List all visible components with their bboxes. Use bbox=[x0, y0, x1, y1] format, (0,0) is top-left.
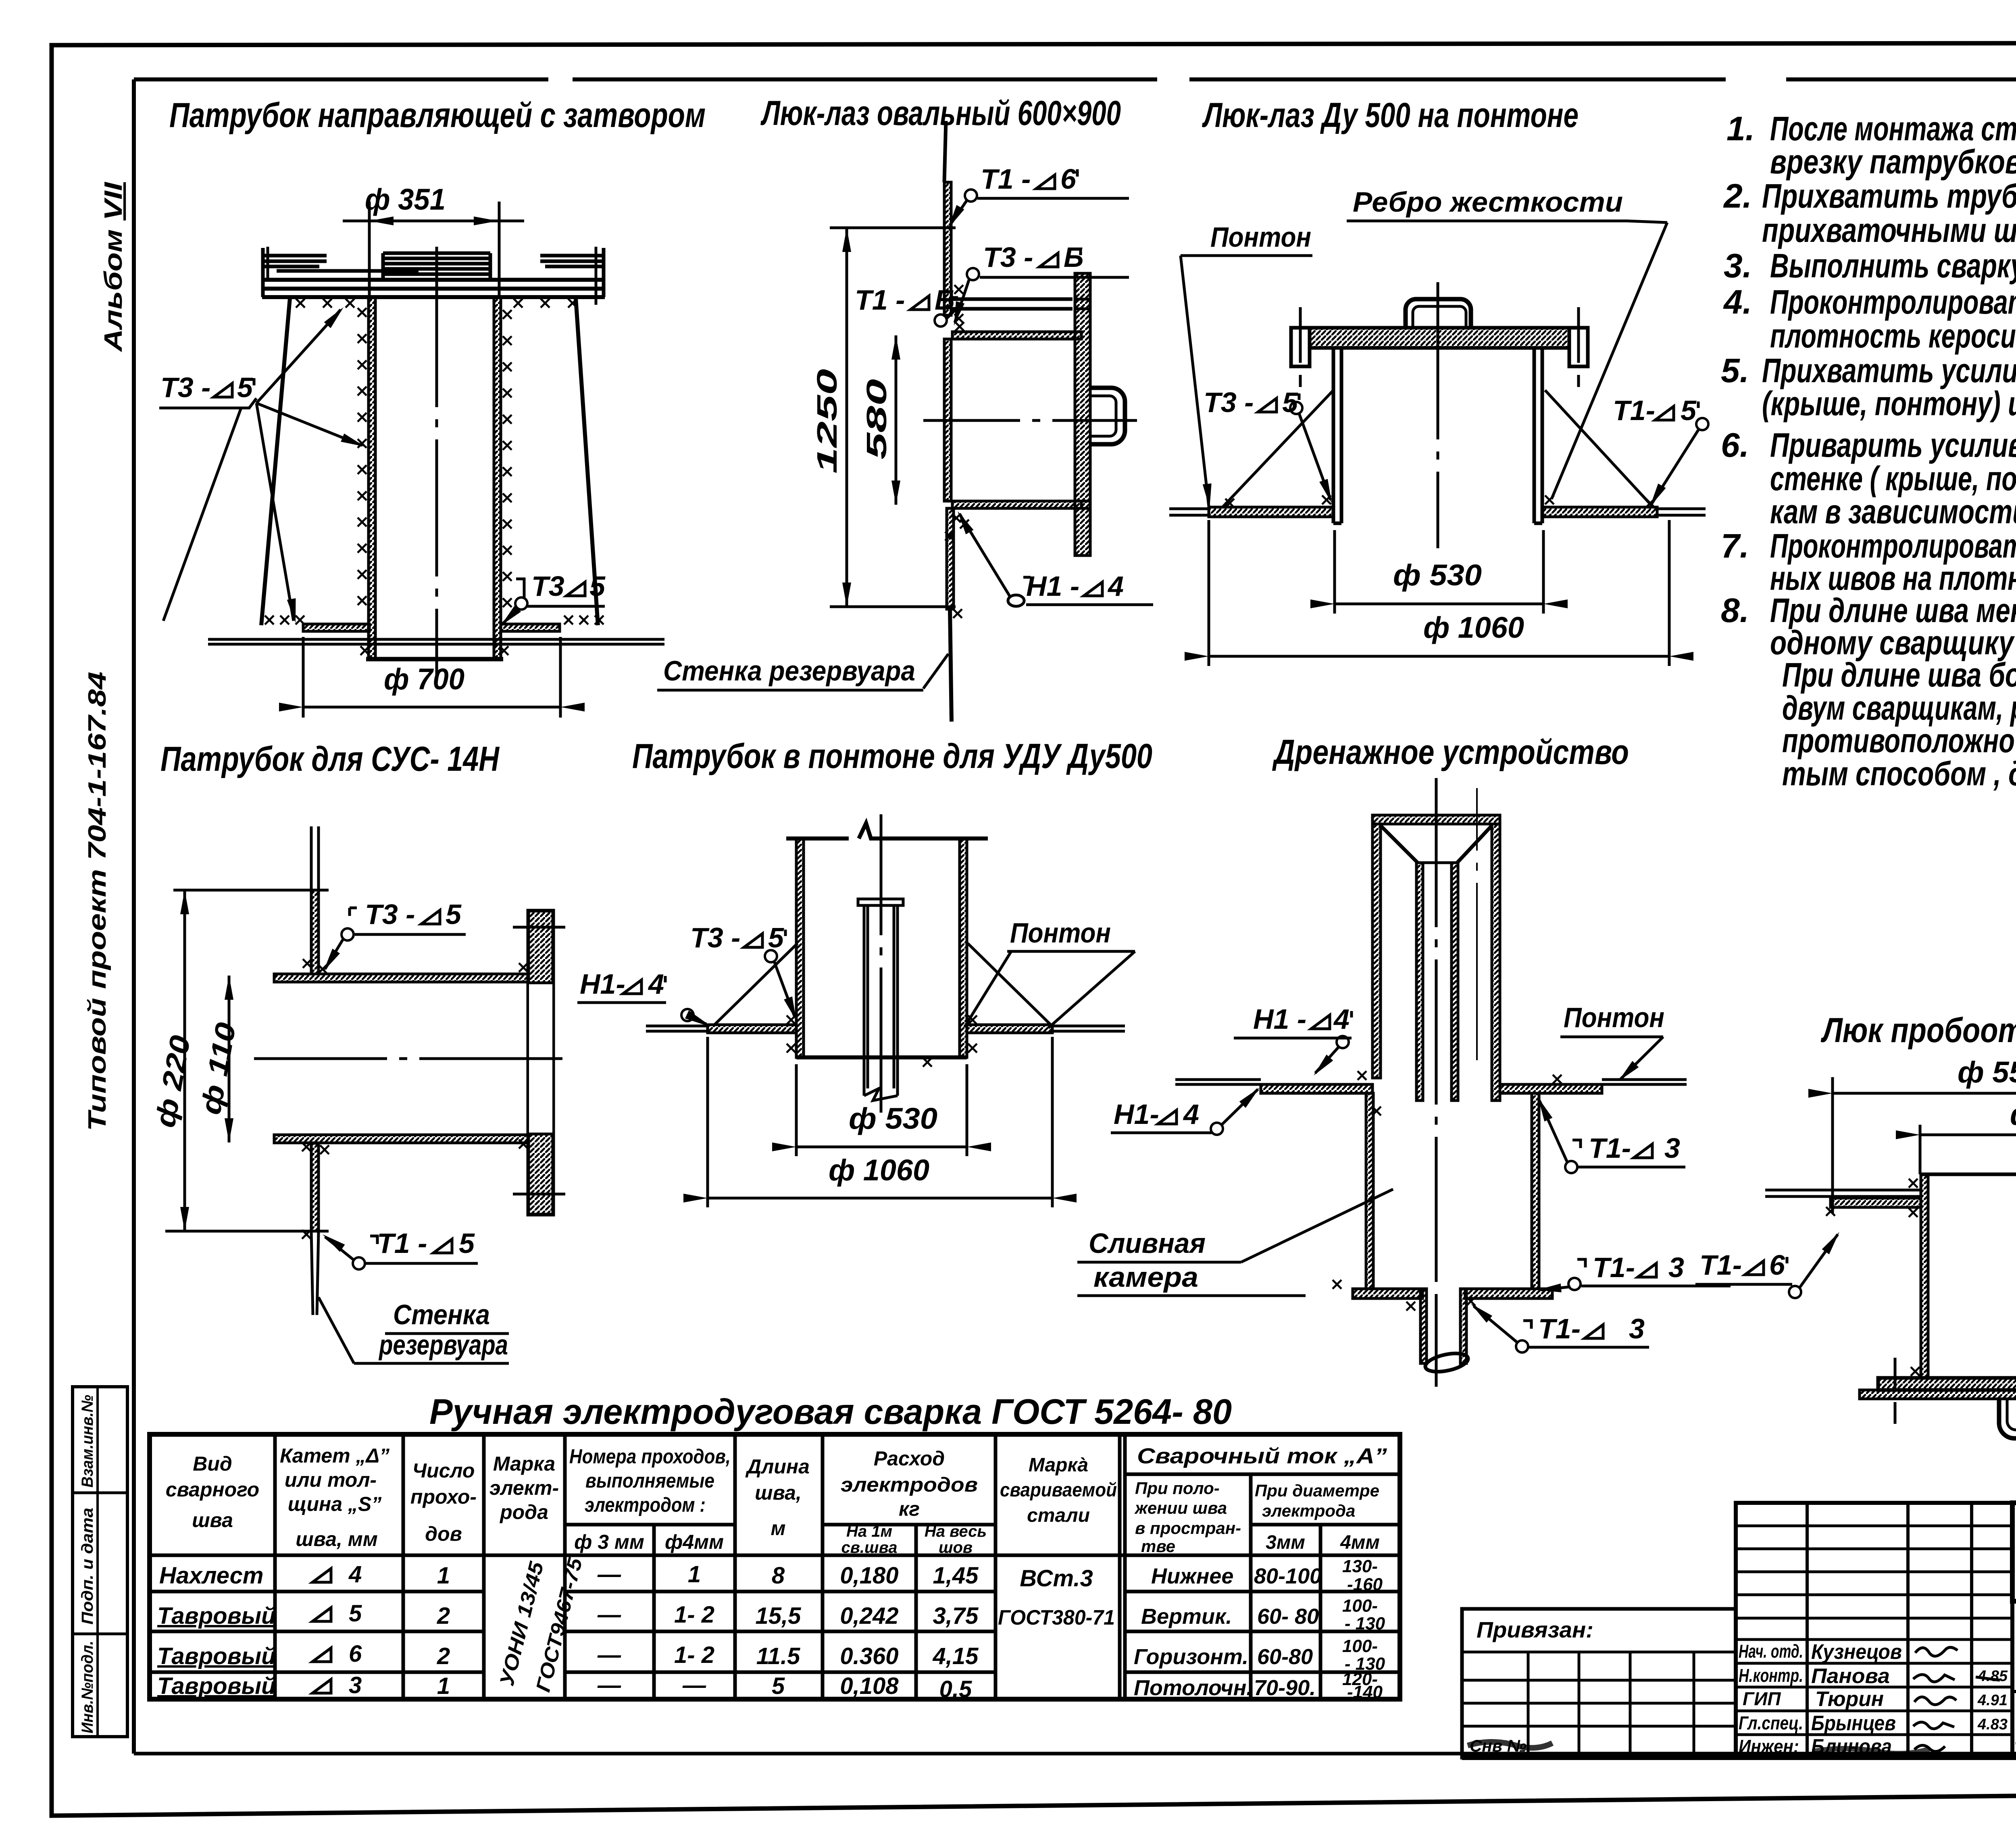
svg-text:Т3 -: Т3 - bbox=[160, 372, 210, 403]
svg-text:Т1-: Т1- bbox=[1589, 1132, 1631, 1164]
svg-text:ВСт.3: ВСт.3 bbox=[1020, 1565, 1093, 1592]
svg-text:7.: 7. bbox=[1721, 527, 1749, 565]
inner pipe bottom break bbox=[864, 1088, 898, 1101]
inner pipe walls bbox=[864, 905, 898, 1096]
svg-text:ф 550: ф 550 bbox=[1958, 1055, 2016, 1089]
svg-text:ф 351: ф 351 bbox=[365, 183, 446, 216]
dim f273 line bbox=[1920, 1134, 2016, 1136]
pontoon plate left (hatched) bbox=[1209, 507, 1334, 517]
table outer frame bbox=[150, 1434, 1400, 1699]
svg-text:или тол-: или тол- bbox=[285, 1469, 377, 1491]
svg-text:1: 1 bbox=[437, 1563, 450, 1589]
svg-text:электродом :: электродом : bbox=[585, 1494, 706, 1516]
vertical centerline bbox=[1437, 282, 1439, 548]
leader lines from T3-5 label bbox=[256, 310, 341, 403]
svg-text:Т1 -: Т1 - bbox=[377, 1228, 427, 1259]
svg-text:4: 4 bbox=[648, 968, 664, 1000]
gate right stack bbox=[540, 256, 604, 266]
svg-text:3: 3 bbox=[1668, 1252, 1684, 1283]
svg-text:Понтон: Понтон bbox=[1010, 917, 1111, 949]
svg-text:ф 1060: ф 1060 bbox=[829, 1153, 929, 1187]
svg-text:3: 3 bbox=[1664, 1132, 1680, 1164]
dim f351 line bbox=[343, 220, 524, 223]
svg-text:0,180: 0,180 bbox=[840, 1563, 898, 1589]
svg-text:Т3 -: Т3 - bbox=[1204, 387, 1254, 418]
svg-text:Марка: Марка bbox=[493, 1452, 555, 1475]
svg-text:прохо-: прохо- bbox=[410, 1486, 477, 1508]
svg-text:Т3 -: Т3 - bbox=[690, 922, 740, 953]
svg-text:(крыше, понтону) швами: (крыше, понтону) швами bbox=[1762, 385, 2016, 422]
left gusset diagonal bbox=[714, 943, 798, 1025]
funnel outer left wall hatched bbox=[1372, 824, 1381, 1078]
pontoon plate left hatched bbox=[708, 1025, 796, 1033]
svg-text:м: м bbox=[771, 1517, 786, 1540]
dim f700 line bbox=[303, 706, 560, 709]
svg-text:Люк пробоотборника Ду 250: Люк пробоотборника Ду 250 bbox=[1820, 1011, 2016, 1050]
skirt bottom edge bbox=[796, 1055, 967, 1059]
handle on flange bbox=[1090, 388, 1125, 444]
weld x-marks drawing 5 bbox=[787, 1015, 796, 1024]
cylinder bottom edges bbox=[1333, 522, 1542, 525]
svg-text:Т1-: Т1- bbox=[1699, 1249, 1742, 1281]
cylinder left wall hatched bbox=[796, 838, 804, 1057]
svg-text:Длина: Длина bbox=[745, 1455, 810, 1478]
svg-text:Т3: Т3 bbox=[531, 570, 564, 602]
centerline annulus right bbox=[1476, 788, 1478, 1060]
svg-text:Т1 -: Т1 - bbox=[981, 163, 1031, 195]
svg-text:Н.контр.: Н.контр. bbox=[1739, 1665, 1803, 1686]
pipe bottom edge bbox=[366, 657, 503, 662]
svg-text:Т3 -: Т3 - bbox=[983, 241, 1033, 273]
svg-text:4мм: 4мм bbox=[1340, 1532, 1380, 1553]
svg-text:ф 700: ф 700 bbox=[384, 662, 464, 696]
svg-text:ф4мм: ф4мм bbox=[665, 1531, 724, 1553]
svg-text:2: 2 bbox=[437, 1603, 450, 1629]
svg-text:Вертик.: Вертик. bbox=[1141, 1604, 1232, 1629]
inner drawing frame bottom bbox=[134, 1752, 2016, 1756]
svg-text:4: 4 bbox=[1183, 1099, 1199, 1130]
svg-text:0,108: 0,108 bbox=[840, 1673, 899, 1699]
data column 5: pass numbers bbox=[597, 1561, 1093, 1702]
dates column bbox=[1977, 1668, 2008, 1733]
table data row lines bbox=[150, 1590, 1400, 1594]
margin stamp boxes bottom-left bbox=[73, 1387, 127, 1737]
gate top plate assembly bbox=[262, 280, 605, 297]
bolt axes dash-dot bbox=[1299, 307, 1302, 387]
signature squiggles bbox=[1915, 1647, 1958, 1656]
svg-text:стенке ( крыше, понтону). Свар: стенке ( крыше, понтону). Сварку вести 1… bbox=[1770, 460, 2016, 497]
cylinder top edge bbox=[1920, 1173, 2016, 1176]
cap bottom edge line bbox=[1310, 346, 1569, 350]
funnel top cap hatched bbox=[1372, 815, 1500, 824]
svg-text:Панова: Панова bbox=[1811, 1664, 1890, 1688]
flange bolt axes bbox=[513, 927, 565, 1194]
svg-text:Т1-: Т1- bbox=[1593, 1252, 1635, 1283]
svg-text:100-: 100- bbox=[1342, 1636, 1378, 1656]
svg-text:5: 5 bbox=[237, 372, 253, 403]
svg-text:Т3 -: Т3 - bbox=[365, 899, 415, 930]
svg-text:шва, мм: шва, мм bbox=[296, 1528, 378, 1550]
svg-text:дов: дов bbox=[425, 1523, 462, 1545]
pipe bottom wall hatched bbox=[274, 1135, 528, 1143]
svg-text:0.360: 0.360 bbox=[840, 1643, 898, 1669]
weld x-marks drawing 2 bbox=[954, 285, 963, 294]
svg-text:2: 2 bbox=[437, 1643, 450, 1669]
svg-text:Б: Б bbox=[1064, 241, 1084, 273]
svg-text:Расход: Расход bbox=[874, 1447, 945, 1470]
svg-text:1- 2: 1- 2 bbox=[674, 1602, 714, 1628]
dim f530 line bbox=[796, 1146, 967, 1148]
drain pipe walls hatched bbox=[1420, 1289, 1427, 1363]
weld x-marks drawing 4 bbox=[303, 959, 312, 968]
reinforcing plate left (hatched) bbox=[303, 624, 369, 631]
svg-text:0,5: 0,5 bbox=[939, 1676, 972, 1702]
svg-text:Номера проходов,: Номера проходов, bbox=[569, 1445, 731, 1468]
svg-text:Тавровый: Тавровый bbox=[157, 1603, 276, 1629]
flange plate right hatched bbox=[528, 911, 553, 1215]
svg-text:Б: Б bbox=[935, 284, 955, 316]
svg-text:580: 580 bbox=[861, 379, 892, 460]
cylinder left wall bbox=[1333, 348, 1341, 523]
svg-text:4: 4 bbox=[348, 1561, 362, 1587]
svg-text:—: — bbox=[597, 1602, 621, 1628]
names column bbox=[1811, 1640, 1902, 1758]
dim f220 vertical line bbox=[183, 890, 186, 1231]
svg-text:элект-: элект- bbox=[489, 1477, 559, 1499]
svg-text:Инжен:: Инжен: bbox=[1739, 1736, 1799, 1757]
svg-text:8: 8 bbox=[772, 1563, 785, 1589]
svg-text:1: 1 bbox=[688, 1561, 701, 1587]
svg-text:Марка̀: Марка̀ bbox=[1029, 1454, 1088, 1476]
data column 1: weld types bbox=[157, 1563, 276, 1699]
svg-text:св.шва: св.шва bbox=[841, 1539, 898, 1556]
header texts col1 bbox=[166, 1444, 978, 1553]
svg-text:5: 5 bbox=[768, 922, 784, 953]
right section dividers bbox=[2012, 1601, 2016, 1758]
tank wall lower hatched bbox=[311, 1143, 319, 1231]
pontoon plate right (hatched) bbox=[1542, 507, 1657, 517]
svg-text:Привязан:: Привязан: bbox=[1477, 1617, 1593, 1642]
svg-text:Приварить усиливающий лист к т: Приварить усиливающий лист к трубе, а за… bbox=[1770, 426, 2016, 464]
svg-text:15,5: 15,5 bbox=[756, 1603, 802, 1629]
flange small top/bottom cross lines bbox=[1075, 299, 1090, 508]
svg-text:ф 530: ф 530 bbox=[1393, 558, 1482, 592]
svg-text:в простран-: в простран- bbox=[1135, 1519, 1241, 1538]
svg-text:6: 6 bbox=[349, 1641, 362, 1667]
svg-text:4,15: 4,15 bbox=[933, 1643, 979, 1669]
svg-text:Проконтролировать 100% выполне: Проконтролировать 100% выполненного шва … bbox=[1770, 283, 2016, 321]
svg-text:стали: стали bbox=[1027, 1505, 1090, 1526]
svg-text:Т1-: Т1- bbox=[1613, 395, 1655, 426]
dim 1250 vertical line bbox=[846, 228, 848, 607]
manhole tube bottom wall (hatched) bbox=[952, 501, 1081, 508]
weld x-marks under gate plate bbox=[296, 299, 305, 308]
gate left stack bbox=[263, 256, 327, 266]
svg-text:Н1-: Н1- bbox=[1114, 1099, 1159, 1130]
svg-text:Тюрин: Тюрин bbox=[1815, 1687, 1884, 1711]
data column 9: positions and currents bbox=[1134, 1564, 1322, 1700]
gate center stack bbox=[383, 253, 490, 274]
dim f700 extension lines bbox=[302, 637, 305, 718]
funnel V left bbox=[1381, 826, 1418, 863]
svg-text:Ребро жесткости: Ребро жесткости bbox=[1353, 186, 1623, 218]
svg-text:-160: -160 bbox=[1347, 1575, 1383, 1594]
chamber left wall hatched bbox=[1366, 1093, 1373, 1289]
pipe centerline bbox=[254, 1057, 562, 1060]
reinforcing plate right (hatched) bbox=[501, 624, 560, 631]
cylinder right wall hatched bbox=[960, 838, 967, 1057]
svg-text:свариваемой: свариваемой bbox=[1000, 1479, 1117, 1501]
drain pipe open bottom end bbox=[1424, 1350, 1470, 1375]
pipe top wall hatched bbox=[274, 974, 528, 982]
bolt axes bbox=[1895, 1358, 2016, 1424]
svg-text:3: 3 bbox=[1629, 1313, 1645, 1344]
svg-text:4.85: 4.85 bbox=[1977, 1668, 2008, 1685]
svg-text:5: 5 bbox=[772, 1673, 785, 1699]
pontoon plate right thin extension bbox=[1657, 509, 1706, 515]
svg-text:3: 3 bbox=[349, 1672, 362, 1698]
dim 580 vertical line bbox=[895, 335, 898, 505]
svg-text:ф 530: ф 530 bbox=[849, 1102, 937, 1135]
svg-text:Потолочн.: Потолочн. bbox=[1134, 1676, 1252, 1700]
weld x-marks left pipe wall bbox=[358, 308, 367, 317]
reinforcing band left hatched bbox=[1831, 1198, 1921, 1207]
dim f1060 line bbox=[1209, 655, 1669, 658]
svg-text:ГИП: ГИП bbox=[1743, 1688, 1781, 1709]
bottom flange hatched bbox=[1878, 1378, 2016, 1390]
data column 3: passes bbox=[437, 1563, 450, 1699]
project code stamp box bbox=[2012, 1503, 2016, 1601]
svg-text:Сливная: Сливная bbox=[1089, 1228, 1206, 1259]
weld x-marks drawing 3 bbox=[1322, 495, 1331, 504]
cylinder right wall bbox=[1534, 348, 1542, 523]
tank wall upper thin part bbox=[944, 121, 946, 182]
manhole tube top wall (hatched) bbox=[952, 332, 1081, 339]
inner tube top edge bbox=[1416, 861, 1458, 864]
svg-text:камера: камера bbox=[1093, 1261, 1198, 1293]
tank wall upper thin bbox=[311, 826, 319, 890]
svg-text:8.: 8. bbox=[1721, 591, 1749, 629]
svg-text:Типовой проект 704-1-167.84: Типовой проект 704-1-167.84 bbox=[83, 672, 111, 1131]
svg-text:5: 5 bbox=[459, 1228, 475, 1259]
dim 1250 extension lines bbox=[830, 227, 956, 229]
svg-text:1: 1 bbox=[437, 1673, 450, 1699]
pontoon plate left thin extension bbox=[1169, 509, 1209, 515]
svg-text:Вид: Вид bbox=[193, 1452, 232, 1475]
horizontal centerline bbox=[923, 419, 1137, 422]
svg-text:4.83: 4.83 bbox=[1977, 1716, 2008, 1733]
svg-text:плотность керосином.: плотность керосином. bbox=[1770, 317, 2016, 355]
svg-text:Тавровый: Тавровый bbox=[157, 1643, 276, 1669]
weld x-marks on shell plate bbox=[265, 616, 274, 624]
svg-text:Н1 -: Н1 - bbox=[1253, 1003, 1306, 1035]
svg-text:ф 273: ф 273 bbox=[2010, 1098, 2016, 1131]
svg-text:На 1м: На 1м bbox=[846, 1523, 892, 1540]
svg-text:Гл.спец.: Гл.спец. bbox=[1739, 1712, 1803, 1733]
upper bracket plate to flange bbox=[952, 299, 1073, 309]
dim f1060 line bbox=[708, 1197, 1052, 1200]
cap left end block bbox=[1291, 328, 1310, 366]
centerline main bbox=[1435, 778, 1438, 1387]
svg-text:выполняемые: выполняемые bbox=[585, 1469, 714, 1492]
roles column bbox=[1739, 1641, 1803, 1757]
svg-text:60- 80: 60- 80 bbox=[1257, 1604, 1319, 1629]
chamber right wall hatched bbox=[1532, 1093, 1539, 1289]
svg-text:70-90.: 70-90. bbox=[1254, 1676, 1316, 1700]
inner drawing frame top bbox=[134, 77, 2016, 81]
pontoon plate left thin bbox=[1175, 1080, 1261, 1084]
pontoon plate left hatched bbox=[1261, 1084, 1372, 1093]
svg-text:Прихватить трубу к стенке (кры: Прихватить трубу к стенке (крыши, понтон… bbox=[1762, 177, 2016, 215]
svg-text:3,75: 3,75 bbox=[933, 1603, 979, 1629]
svg-text:жении шва: жении шва bbox=[1134, 1498, 1227, 1517]
svg-text:1- 2: 1- 2 bbox=[674, 1642, 714, 1668]
svg-text:Инв.№подл.: Инв.№подл. bbox=[79, 1641, 96, 1733]
svg-text:Альбом VII: Альбом VII bbox=[100, 181, 127, 353]
svg-text:кг: кг bbox=[899, 1498, 920, 1520]
tank wall mid segment (hatched) bbox=[944, 339, 951, 501]
svg-text:-140: -140 bbox=[1347, 1682, 1383, 1702]
svg-text:Ручная электродуговая сварка: Ручная электродуговая сварка ГОСТ 5264- … bbox=[429, 1392, 1232, 1431]
centerline bbox=[880, 814, 883, 1113]
tank wall upper segment (hatched plate) bbox=[944, 182, 951, 315]
pipe left wall (hatched) bbox=[369, 297, 375, 659]
cylinder top cap plate (hatched) bbox=[1310, 328, 1569, 348]
right gusset leader diagonal bbox=[1545, 390, 1653, 507]
handle on cap bbox=[1406, 299, 1471, 328]
cylinder left wall hatched bbox=[1921, 1174, 1928, 1378]
pontoon plate right hatched bbox=[1500, 1084, 1602, 1093]
left gusset leader diagonal bbox=[1223, 390, 1333, 507]
handle below flange bbox=[1999, 1399, 2016, 1438]
leader from rib label bbox=[1627, 221, 1667, 223]
svg-text:5: 5 bbox=[589, 570, 606, 602]
svg-text:—: — bbox=[597, 1672, 621, 1698]
svg-text:Катет „Δ”: Катет „Δ” bbox=[280, 1444, 389, 1467]
gate guide short verticals bbox=[267, 247, 269, 278]
svg-text:1250: 1250 bbox=[811, 369, 843, 474]
svg-text:6.: 6. bbox=[1721, 426, 1749, 464]
svg-text:На весь: На весь bbox=[925, 1523, 987, 1540]
dim f550 line bbox=[1833, 1092, 2016, 1095]
bottom flange lower plate bbox=[1860, 1390, 2016, 1399]
svg-text:ГОСТ380-71: ГОСТ380-71 bbox=[998, 1606, 1115, 1629]
svg-text:4: 4 bbox=[1333, 1003, 1350, 1035]
svg-text:врезку патрубков и люков.: врезку патрубков и люков. bbox=[1770, 143, 2016, 181]
svg-text:двум сварщикам, расположенным: двум сварщикам, расположенным диаметраль… bbox=[1782, 689, 2016, 727]
svg-text:электродов: электродов bbox=[841, 1473, 978, 1496]
svg-text:—: — bbox=[682, 1672, 706, 1698]
right gusset diagonal bbox=[968, 943, 1051, 1025]
svg-text:3мм: 3мм bbox=[1266, 1532, 1305, 1553]
inner tube left wall hatched bbox=[1416, 863, 1423, 1101]
pipe right wall (hatched) bbox=[494, 297, 501, 659]
svg-text:1.: 1. bbox=[1727, 110, 1755, 148]
smudge marks bbox=[1468, 1742, 1552, 1748]
svg-text:5.: 5. bbox=[1721, 352, 1749, 389]
flange plate right (hatched) bbox=[1075, 273, 1090, 556]
svg-text:0,242: 0,242 bbox=[840, 1603, 898, 1629]
pontoon plate right thin bbox=[1052, 1026, 1125, 1031]
weld x-marks right pipe wall bbox=[503, 310, 512, 319]
svg-text:рода: рода bbox=[499, 1501, 548, 1523]
inner pipe cap bbox=[858, 899, 903, 905]
inner drawing frame left bbox=[132, 79, 136, 1754]
pontoon plate left thin bbox=[1765, 1190, 1921, 1196]
svg-text:сварного: сварного bbox=[166, 1478, 259, 1501]
tank wall lower thin part bbox=[950, 609, 952, 722]
cap right end block bbox=[1569, 328, 1588, 366]
svg-text:Нижнее: Нижнее bbox=[1151, 1564, 1233, 1588]
svg-text:Тавровый: Тавровый bbox=[157, 1673, 276, 1699]
pontoon plate left thin bbox=[646, 1026, 708, 1031]
svg-text:прихваточными швами: прихваточными швами bbox=[1762, 211, 2016, 249]
svg-text:Н1-: Н1- bbox=[580, 968, 625, 1000]
svg-text:тве: тве bbox=[1141, 1537, 1175, 1556]
cylinder top edge with break mark bbox=[786, 823, 988, 838]
svg-text:4.: 4. bbox=[1723, 283, 1752, 321]
svg-text:Люк-лаз овальный 600×900: Люк-лаз овальный 600×900 bbox=[760, 94, 1121, 133]
svg-text:Патрубок в понтоне для УДУ Ду5: Патрубок в понтоне для УДУ Ду500 bbox=[632, 737, 1152, 776]
svg-text:Патрубок направляющей с затвор: Патрубок направляющей с затвором bbox=[169, 96, 706, 135]
dim f351 extension lines bbox=[368, 202, 371, 298]
svg-text:Дренажное устройство: Дренажное устройство bbox=[1272, 733, 1629, 772]
svg-text:- 130: - 130 bbox=[1345, 1614, 1385, 1633]
tank shell plate bbox=[208, 639, 664, 644]
dim f220 extensions bbox=[173, 889, 329, 892]
dim f530 line bbox=[1335, 603, 1543, 605]
svg-text:Понтон: Понтон bbox=[1210, 221, 1311, 253]
data column 2: fillet triangles bbox=[312, 1569, 331, 1582]
svg-text:Нахлест: Нахлест bbox=[159, 1563, 264, 1589]
table header horizontals bbox=[150, 1474, 1400, 1555]
revision table horizontals upper bbox=[1736, 1526, 2012, 1640]
svg-text:Сварочный ток „А”: Сварочный ток „А” bbox=[1137, 1444, 1387, 1468]
pipe centerline bbox=[435, 247, 438, 676]
svg-text:Т1 -: Т1 - bbox=[855, 284, 905, 316]
tank wall upper hatched bbox=[311, 890, 319, 974]
svg-text:4: 4 bbox=[1107, 570, 1124, 602]
weld x-marks drawing 6 bbox=[1358, 1071, 1366, 1080]
svg-text:кам в зависимости от длины шва: кам в зависимости от длины шва. bbox=[1770, 493, 2016, 531]
svg-text:6: 6 bbox=[1060, 163, 1077, 195]
svg-text:—: — bbox=[597, 1561, 621, 1587]
svg-text:Люк-лаз Ду 500 на понтоне: Люк-лаз Ду 500 на понтоне bbox=[1202, 96, 1579, 135]
pinned-to box bbox=[1462, 1609, 1736, 1758]
pontoon plate right thin bbox=[1602, 1080, 1687, 1084]
svg-text:шва,: шва, bbox=[755, 1481, 802, 1504]
chamber bottom plate hatched (two segments around pipe) bbox=[1353, 1289, 1422, 1298]
svg-text:Число: Число bbox=[412, 1459, 475, 1482]
svg-text:тым способом , длина ступени 2: тым способом , длина ступени 200-250 мм. bbox=[1782, 755, 2016, 793]
svg-text:При диаметре: При диаметре bbox=[1255, 1481, 1379, 1500]
svg-text:5: 5 bbox=[1681, 395, 1697, 426]
pontoon plate right hatched bbox=[967, 1025, 1052, 1033]
svg-text:—: — bbox=[597, 1642, 621, 1668]
table verticals bbox=[275, 1434, 1251, 1699]
svg-text:Выполнить сварку одному или дв: Выполнить сварку одному или двум сварщик… bbox=[1770, 247, 2016, 285]
svg-text:Прихватить усиливающий лист к: Прихватить усиливающий лист к трубе и к … bbox=[1762, 352, 2016, 389]
svg-text:шва: шва bbox=[192, 1509, 233, 1531]
svg-text:5: 5 bbox=[349, 1600, 362, 1627]
svg-text:Стенка: Стенка bbox=[393, 1299, 490, 1330]
svg-text:Патрубок для СУС- 14Н: Патрубок для СУС- 14Н bbox=[160, 740, 500, 778]
svg-text:электрода: электрода bbox=[1262, 1501, 1355, 1520]
svg-text:Т1-: Т1- bbox=[1538, 1313, 1581, 1344]
svg-text:130-: 130- bbox=[1342, 1556, 1378, 1576]
svg-text:5: 5 bbox=[446, 899, 462, 930]
svg-text:Н1 -: Н1 - bbox=[1026, 570, 1079, 602]
